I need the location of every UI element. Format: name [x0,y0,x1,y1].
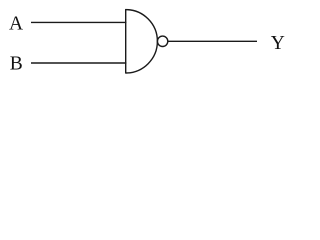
inversion bubble [157,36,167,46]
svg-text:A: A [9,13,23,34]
svg-text:Y: Y [271,33,285,54]
wire input A [31,21,126,23]
NAND gate body [126,10,158,73]
wire input B [31,62,126,64]
wire output Y [168,40,257,42]
svg-text:B: B [10,53,23,74]
